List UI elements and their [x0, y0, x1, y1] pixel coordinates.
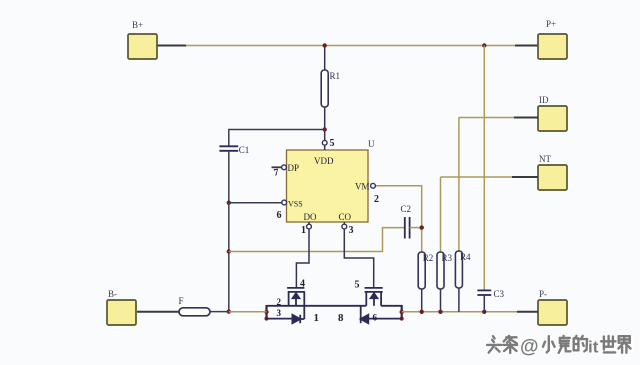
wire: B- pad to fuse: [137, 311, 179, 313]
pad B-: [107, 289, 136, 325]
node: junction C1 line / VSS wire: [227, 201, 231, 205]
resistor R3 + riser from NT wire: [437, 177, 453, 312]
transistor Q1 (left FET of dual MOSFET): [267, 288, 367, 323]
wire: fuse to C1 junction to FET1: [210, 311, 229, 313]
wire: C1 bottom down to B- rail: [228, 151, 230, 312]
pad ID: [538, 95, 567, 131]
pad P-: [538, 289, 567, 325]
pin 3 CO bottom: [342, 222, 354, 236]
capacitor C3 + riser from top rail: [477, 46, 504, 312]
pin 7 DP left: [272, 165, 287, 179]
resistor R4 + riser from ID wire: [455, 118, 471, 312]
capacitor C2: [401, 204, 422, 239]
wire: dark stub at P+: [515, 45, 538, 47]
node: junction VM riser / C2: [420, 225, 424, 229]
wire: R1 bottom to C1 top: [229, 130, 325, 147]
pad B+: [128, 20, 157, 59]
fuse F: [179, 296, 211, 316]
wire: top rail B+ to P+: [157, 45, 538, 47]
node: FET2 source bar junctions: [400, 310, 404, 314]
node: junction top rail / C3 riser: [482, 43, 486, 47]
resistor R2 + riser from VM line: [418, 252, 433, 312]
wire: FET2 to P- pad rail: [402, 311, 538, 313]
wire: DO net horizontal to C2 branch: [229, 228, 405, 252]
pad P+: [538, 19, 567, 59]
node: junction C1 line / DO-CO net: [227, 249, 231, 253]
capacitor C1: [219, 145, 249, 155]
pad NT: [538, 154, 567, 190]
pin 6 VSS left + wire to C1 line: [229, 200, 287, 221]
wire: ID pad to R4 riser: [459, 117, 538, 119]
wire: DO pin down to FET1 gate: [296, 229, 309, 287]
resistor R1: [321, 46, 340, 141]
svg-text:@: @: [520, 337, 539, 358]
op-amp U1: protection IC U body: [287, 139, 376, 222]
wire: NT pad to R3 riser: [441, 176, 539, 178]
node: junction R1 bottom / C1 branch: [323, 127, 327, 131]
pin 5 VDD top: [322, 138, 334, 150]
wire: CO pin down to FET2 gate: [344, 229, 373, 287]
node: junctions on P- rail: [420, 310, 424, 314]
svg-text:it: it: [588, 338, 599, 357]
pin 2 VM right + wire to R2 riser: [371, 183, 422, 252]
node: junction C1 line / bottom rail: [227, 309, 231, 313]
wire: dark stub at B+: [157, 45, 186, 47]
node: junction top rail / R1: [323, 43, 327, 47]
node: FET1 source bar junctions: [264, 310, 268, 314]
pin 1 DO bottom: [301, 222, 311, 236]
transistor Q2 (right FET of dual MOSFET): [361, 288, 402, 323]
